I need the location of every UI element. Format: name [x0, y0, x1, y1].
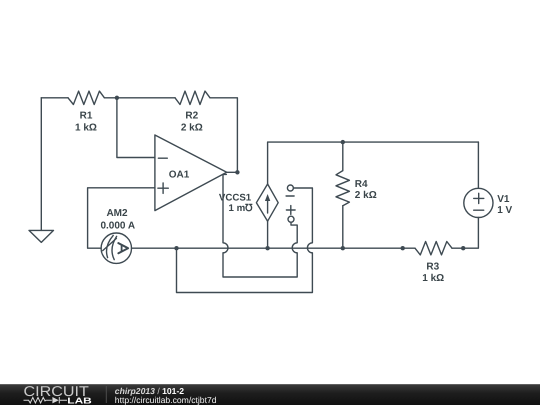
pin: OA1 inverting input (-) — [158, 157, 167, 159]
svg-text:1 V: 1 V — [497, 205, 512, 216]
resistor R3 — [415, 242, 452, 255]
VCCS1 control plus sign — [286, 206, 295, 215]
wire: op-amp output lead — [227, 171, 238, 173]
svg-text:http://circuitlab.com/ctjbt7d: http://circuitlab.com/ctjbt7d — [115, 395, 217, 405]
wire: VCCS top lead and top bus — [268, 142, 479, 184]
node: R4 bottom — [341, 246, 345, 250]
wire: V1 top lead — [477, 142, 479, 188]
node: VCCS bottom — [265, 246, 269, 250]
wire: R2 right lead down to op-amp output node — [210, 98, 237, 173]
ammeter AM2 — [101, 233, 131, 263]
ground — [29, 230, 54, 242]
ammeter AM2 body circle — [101, 233, 131, 263]
svg-text:OA1: OA1 — [169, 169, 190, 180]
node: op-amp output — [235, 170, 239, 174]
svg-text:LAB: LAB — [67, 395, 92, 405]
VCCS1 diamond body — [256, 184, 278, 221]
wire: R3 to V1 bottom — [452, 218, 478, 249]
svg-text:2 kΩ: 2 kΩ — [355, 190, 377, 201]
node: R4 top — [341, 140, 345, 144]
svg-text:2 kΩ: 2 kΩ — [181, 122, 203, 133]
op-amp OA1 triangle body — [155, 135, 227, 211]
ammeter AM2 scale arcs — [107, 235, 114, 257]
svg-text:R1: R1 — [80, 110, 93, 121]
wire: inverting input from node A — [117, 98, 155, 158]
V1 minus sign — [474, 209, 484, 211]
svg-text:AM2: AM2 — [106, 208, 128, 219]
wire: R4 bottom lead — [342, 206, 344, 249]
footer bar — [0, 384, 540, 405]
node: bottom-left junction — [174, 246, 178, 250]
wire: bottom node to VCCS minus control (with hop) — [177, 188, 313, 293]
svg-text:R4: R4 — [355, 179, 368, 190]
voltage source V1 — [464, 188, 493, 217]
node: R3 left terminal — [401, 246, 405, 250]
node: R3 right terminal — [461, 246, 465, 250]
resistor R1 — [68, 91, 104, 104]
wire: ground riser — [40, 98, 42, 231]
node: R1/R2/inverting junction — [115, 96, 119, 100]
wire: VCCS bottom lead — [267, 221, 269, 248]
VCCS1 current arrow — [267, 200, 269, 213]
wire: main bottom net — [132, 247, 416, 249]
VCCS1 control terminal (-) circle — [287, 185, 293, 191]
svg-text:R2: R2 — [185, 110, 198, 121]
vccs VCCS1 control terminals — [286, 185, 295, 222]
logo CIRCUIT LAB — [24, 384, 92, 405]
svg-text:R3: R3 — [426, 261, 439, 272]
vccs VCCS1 diamond — [256, 184, 278, 221]
wire: R4 top lead — [342, 142, 344, 171]
wire: R1 to R2 — [104, 97, 175, 99]
resistor R2 — [175, 91, 210, 104]
ammeter AM2 needle — [103, 238, 117, 250]
resistor R4 — [336, 171, 349, 206]
VCCS1 control minus sign — [286, 195, 294, 197]
svg-text:1 kΩ: 1 kΩ — [75, 122, 97, 133]
svg-text:1 kΩ: 1 kΩ — [422, 273, 444, 284]
wire: top-left net (R1 left lead) — [41, 97, 68, 99]
wire: output down to VCCS plus control (with hops) — [223, 174, 297, 277]
V1 body circle — [464, 188, 493, 217]
svg-text:0.000 A: 0.000 A — [100, 221, 135, 232]
ammeter AM2 letter A — [118, 243, 128, 253]
svg-text:VCCS1: VCCS1 — [219, 193, 252, 204]
V1 plus sign — [474, 193, 484, 203]
op-amp OA1 — [155, 135, 227, 211]
wire: non-inverting input to ammeter — [88, 188, 155, 248]
svg-text:V1: V1 — [497, 194, 510, 205]
footer separator — [106, 386, 107, 403]
pin: OA1 non-inverting input (+) — [158, 183, 168, 193]
svg-text:1 m℧: 1 m℧ — [228, 203, 253, 214]
VCCS1 control terminal (+) circle — [288, 216, 294, 222]
